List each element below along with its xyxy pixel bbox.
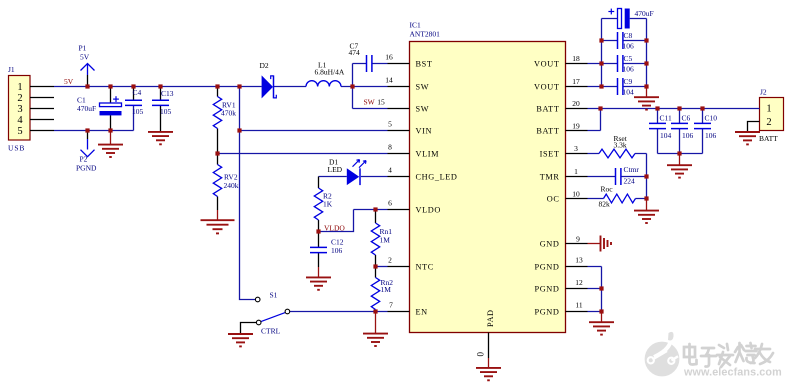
svg-text:C10: C10 — [705, 113, 718, 122]
svg-text:OC: OC — [547, 195, 560, 204]
svg-text:SW: SW — [416, 105, 430, 114]
svg-text:Roc: Roc — [601, 185, 614, 194]
svg-text:VLDO: VLDO — [416, 206, 441, 215]
svg-text:470k: 470k — [221, 109, 236, 118]
svg-text:PGND: PGND — [76, 164, 97, 173]
svg-text:C8: C8 — [624, 31, 633, 40]
svg-text:5V: 5V — [80, 53, 90, 62]
svg-text:14: 14 — [385, 76, 393, 85]
svg-text:106: 106 — [682, 131, 694, 140]
svg-text:470uF: 470uF — [635, 9, 654, 18]
svg-text:BATT: BATT — [759, 134, 778, 143]
svg-text:SW: SW — [364, 98, 376, 107]
svg-text:2: 2 — [388, 256, 392, 265]
svg-text:474: 474 — [349, 48, 361, 57]
svg-text:106: 106 — [705, 131, 717, 140]
svg-text:PGND: PGND — [535, 263, 560, 272]
svg-text:104: 104 — [660, 131, 672, 140]
svg-text:20: 20 — [572, 99, 580, 108]
svg-text:1: 1 — [766, 104, 771, 115]
svg-text:105: 105 — [160, 107, 172, 116]
svg-text:PAD: PAD — [486, 309, 495, 327]
svg-text:13: 13 — [575, 256, 583, 265]
svg-text:1: 1 — [17, 82, 22, 93]
svg-text:3: 3 — [574, 144, 578, 153]
svg-text:LED: LED — [328, 165, 343, 174]
svg-text:1K: 1K — [323, 200, 333, 209]
svg-text:6.8uH/4A: 6.8uH/4A — [315, 68, 345, 77]
svg-text:C9: C9 — [624, 77, 633, 86]
svg-text:P2: P2 — [80, 155, 88, 164]
svg-text:12: 12 — [575, 278, 583, 287]
svg-text:6: 6 — [388, 199, 392, 208]
svg-text:C5: C5 — [624, 54, 633, 63]
svg-text:4: 4 — [388, 166, 392, 175]
svg-text:470uF: 470uF — [77, 104, 96, 113]
svg-text:ANT2801: ANT2801 — [410, 30, 441, 39]
svg-text:16: 16 — [385, 53, 393, 62]
svg-text:ISET: ISET — [540, 150, 560, 159]
svg-text:Ctmr: Ctmr — [624, 165, 640, 174]
svg-text:5: 5 — [388, 120, 392, 129]
svg-text:0: 0 — [476, 352, 486, 357]
svg-text:SW: SW — [416, 83, 430, 92]
svg-text:VIN: VIN — [416, 127, 433, 136]
svg-text:GND: GND — [540, 240, 560, 249]
svg-text:3: 3 — [17, 104, 22, 115]
svg-text:VOUT: VOUT — [534, 60, 559, 69]
svg-text:TMR: TMR — [540, 173, 560, 182]
svg-text:5V: 5V — [64, 77, 74, 86]
svg-text:5: 5 — [17, 126, 22, 137]
svg-text:CHG_LED: CHG_LED — [416, 173, 458, 182]
svg-text:BATT: BATT — [536, 127, 559, 136]
svg-text:18: 18 — [572, 54, 580, 63]
svg-text:USB: USB — [8, 144, 25, 153]
svg-text:15: 15 — [377, 98, 385, 107]
svg-text:S1: S1 — [270, 291, 278, 300]
svg-text:2: 2 — [766, 117, 771, 128]
svg-text:2: 2 — [17, 93, 22, 104]
svg-text:C4: C4 — [133, 88, 142, 97]
svg-text:4: 4 — [17, 115, 23, 126]
svg-text:10: 10 — [572, 190, 580, 199]
svg-text:J1: J1 — [8, 65, 15, 74]
svg-text:3.3k: 3.3k — [614, 141, 627, 150]
svg-text:11: 11 — [575, 301, 582, 310]
svg-text:NTC: NTC — [416, 263, 434, 272]
svg-text:104: 104 — [623, 88, 635, 97]
svg-text:19: 19 — [572, 122, 580, 131]
svg-text:1M: 1M — [380, 236, 391, 245]
svg-text:1: 1 — [574, 167, 578, 176]
svg-text:82k: 82k — [599, 200, 611, 209]
svg-text:PGND: PGND — [535, 285, 560, 294]
svg-text:EN: EN — [416, 308, 428, 317]
svg-text:D2: D2 — [260, 61, 269, 70]
svg-text:C6: C6 — [682, 113, 691, 122]
svg-text:www.elecfans.com: www.elecfans.com — [683, 366, 782, 378]
svg-text:240k: 240k — [224, 181, 239, 190]
svg-text:BST: BST — [416, 60, 433, 69]
svg-text:105: 105 — [132, 107, 144, 116]
svg-text:17: 17 — [572, 77, 580, 86]
svg-text:VLDO: VLDO — [324, 224, 345, 233]
svg-text:1M: 1M — [381, 285, 392, 294]
svg-text:7: 7 — [389, 301, 393, 310]
svg-text:P1: P1 — [79, 44, 87, 53]
svg-text:IC1: IC1 — [410, 21, 422, 30]
svg-text:106: 106 — [623, 65, 635, 74]
svg-text:8: 8 — [388, 143, 392, 152]
svg-text:C13: C13 — [161, 89, 174, 98]
svg-text:224: 224 — [624, 177, 636, 186]
svg-text:J2: J2 — [760, 88, 767, 97]
svg-text:106: 106 — [331, 246, 343, 255]
svg-text:CTRL: CTRL — [261, 327, 281, 336]
svg-text:PGND: PGND — [535, 308, 560, 317]
svg-text:VOUT: VOUT — [534, 83, 559, 92]
svg-text:C11: C11 — [660, 113, 672, 122]
svg-text:106: 106 — [623, 42, 635, 51]
svg-text:BATT: BATT — [536, 105, 559, 114]
svg-text:9: 9 — [576, 235, 580, 244]
svg-text:VLIM: VLIM — [416, 150, 440, 159]
